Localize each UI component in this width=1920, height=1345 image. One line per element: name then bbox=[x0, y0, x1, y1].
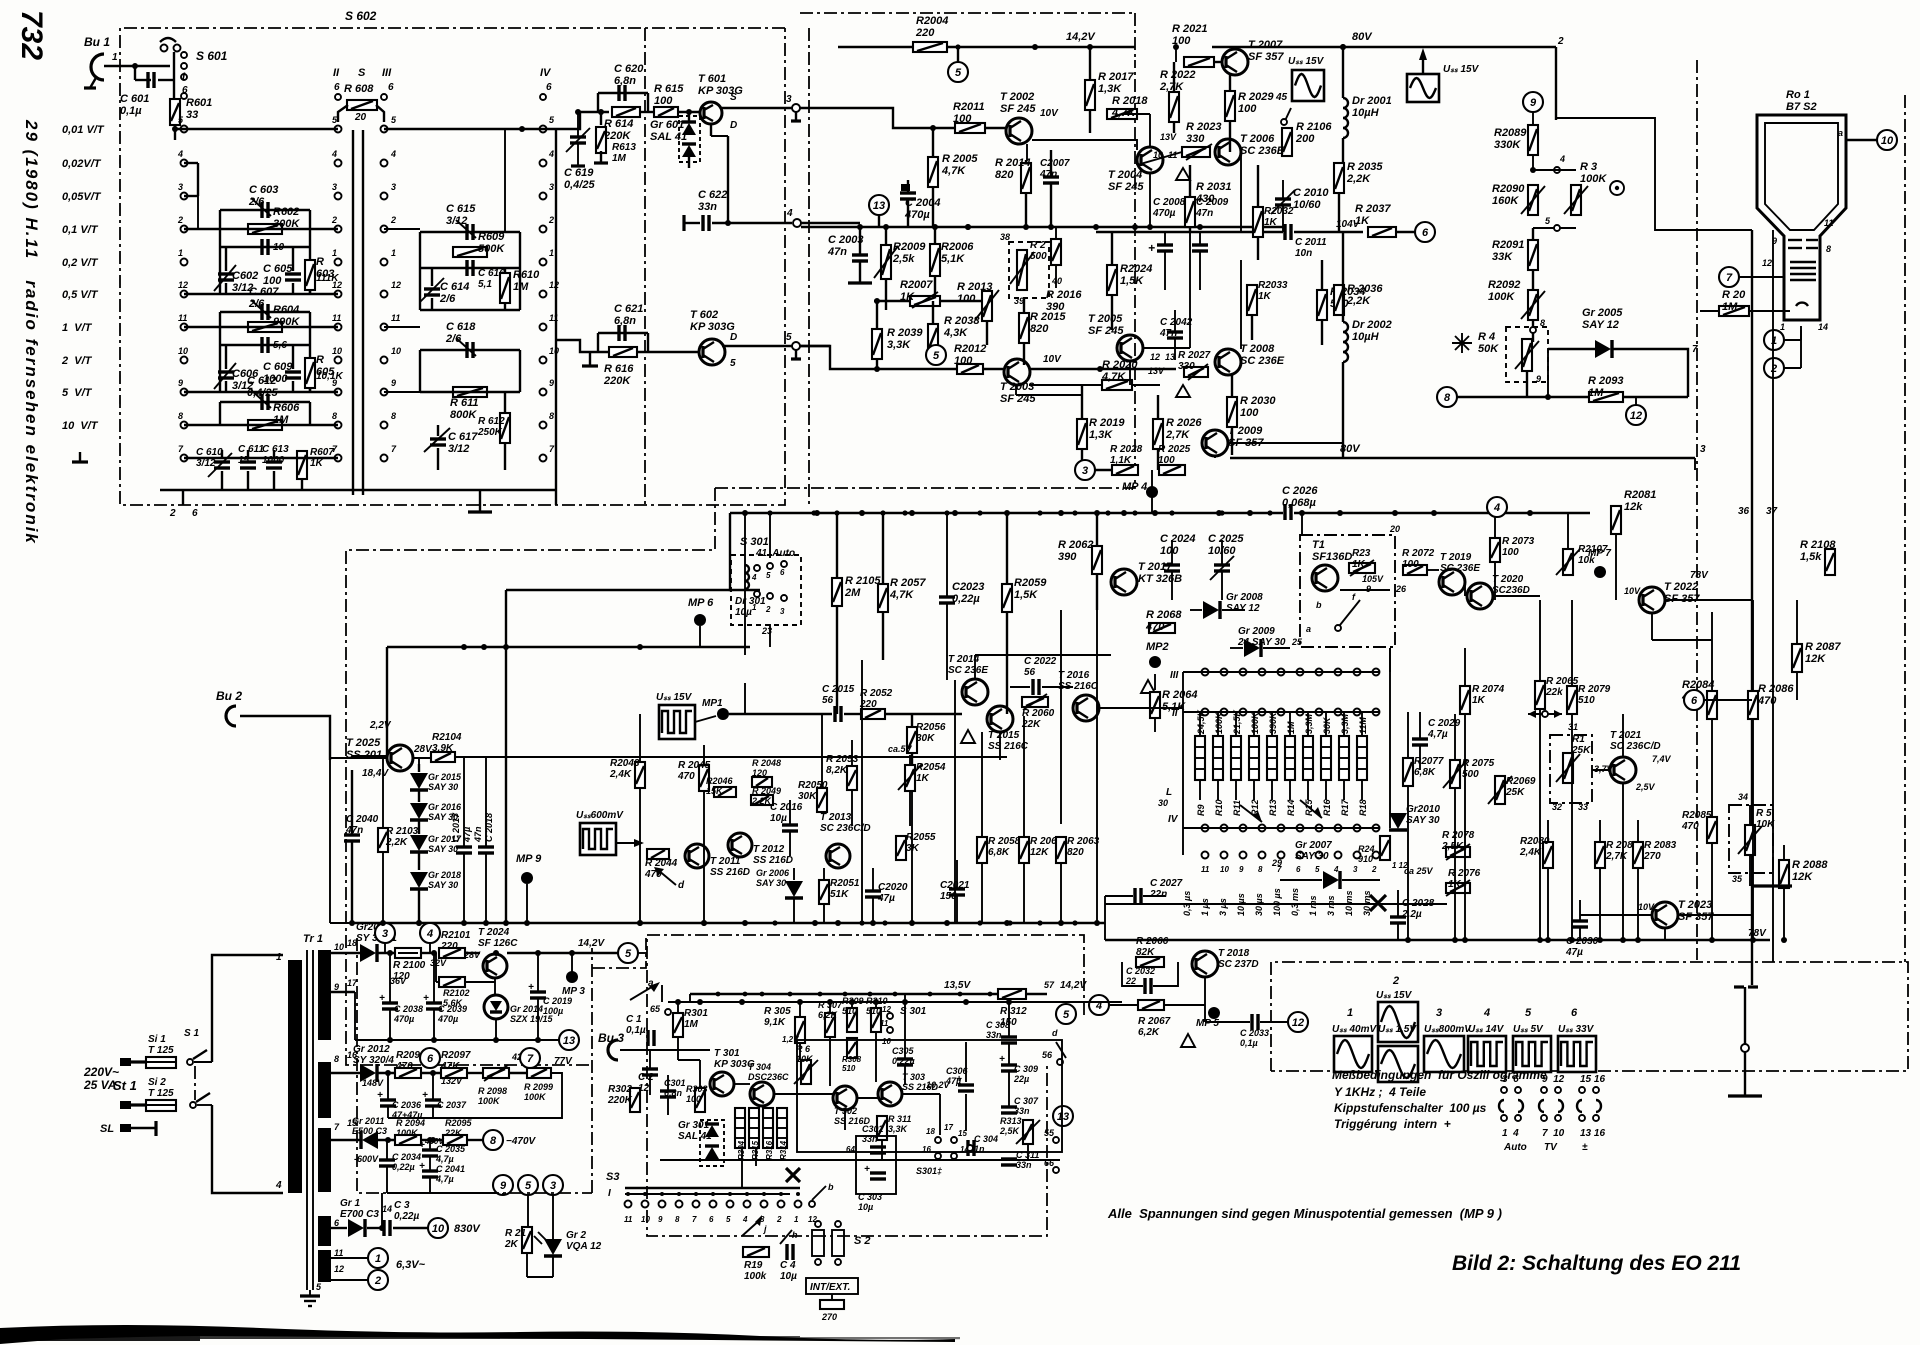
potentiometer R1 bbox=[1550, 735, 1592, 803]
svg-text:R9: R9 bbox=[1196, 804, 1206, 816]
matrix right link bbox=[1389, 648, 1391, 672]
svg-text:T 2022SF 357: T 2022SF 357 bbox=[1664, 581, 1700, 605]
right verticals bbox=[1751, 230, 1753, 985]
chain y-amp box right part bbox=[1134, 13, 1136, 60]
svg-text:5: 5 bbox=[1525, 1007, 1532, 1019]
svg-text:Uₛₛ 15V: Uₛₛ 15V bbox=[656, 692, 693, 703]
svg-text:4: 4 bbox=[177, 149, 183, 159]
T2023 links bbox=[1580, 914, 1652, 916]
svg-text:5: 5 bbox=[933, 350, 940, 362]
svg-text:32V: 32V bbox=[430, 958, 447, 968]
resistor R2067 bbox=[1138, 1000, 1164, 1010]
svg-text:b: b bbox=[1316, 600, 1322, 610]
capacitor C2019 bbox=[530, 992, 546, 998]
resistor R2021 bbox=[1184, 57, 1214, 67]
resistor R2093 bbox=[1589, 392, 1623, 402]
MP6 bbox=[694, 614, 706, 626]
capacitor C601 bbox=[134, 66, 136, 80]
svg-text:9: 9 bbox=[178, 378, 183, 388]
resistor R2011 bbox=[955, 123, 985, 133]
svg-text:10V: 10V bbox=[1043, 354, 1062, 365]
resistor R2072 bbox=[1403, 565, 1427, 575]
capacitors C2034 C2035 C2041 bbox=[379, 1160, 395, 1166]
svg-text:MP 7: MP 7 bbox=[1588, 548, 1611, 559]
resistor R616 bbox=[609, 347, 637, 357]
svg-text:13: 13 bbox=[563, 1035, 575, 1047]
resistors R2046 R2048 R2049 bbox=[714, 787, 736, 797]
resistor R2006 bbox=[930, 244, 940, 276]
svg-text:Gr2010SAY 30: Gr2010SAY 30 bbox=[1406, 804, 1440, 826]
svg-text:R24910: R24910 bbox=[1358, 844, 1375, 864]
svg-text:Uₛₛ 40mV: Uₛₛ 40mV bbox=[1332, 1024, 1377, 1035]
transistor T302 bbox=[833, 1086, 857, 1110]
svg-text:3: 3 bbox=[1436, 1007, 1442, 1019]
resistor R606 bbox=[248, 420, 282, 430]
capacitor C309 bbox=[1001, 1065, 1017, 1071]
transistor T304 bbox=[750, 1082, 774, 1106]
svg-text:4: 4 bbox=[426, 928, 433, 940]
svg-text:Uₛₛ 15V: Uₛₛ 15V bbox=[1376, 990, 1413, 1001]
svg-text:47µ: 47µ bbox=[462, 827, 472, 843]
svg-text:3: 3 bbox=[1082, 465, 1088, 477]
divider right network 500K bbox=[420, 231, 520, 233]
wire trigger horizontals bbox=[668, 1001, 1122, 1003]
terminal 13 bbox=[869, 195, 889, 215]
svg-text:L: L bbox=[1166, 787, 1172, 798]
ground stub T602 bbox=[582, 352, 598, 366]
chain y-amp bottom bbox=[715, 60, 1135, 488]
svg-text:1: 1 bbox=[375, 1253, 381, 1265]
svg-text:R602300K: R602300K bbox=[273, 206, 300, 230]
wire T2002 collector bbox=[1026, 144, 1028, 160]
transistor T2007 bbox=[1222, 49, 1248, 75]
terminals 9 5 3 bbox=[493, 1175, 513, 1195]
svg-text:65: 65 bbox=[650, 1004, 661, 1014]
wire T2009 emitter bbox=[1214, 456, 1216, 458]
svg-text:10: 10 bbox=[882, 1037, 891, 1046]
svg-text:C3050,22µ: C3050,22µ bbox=[892, 1046, 915, 1066]
svg-text:6: 6 bbox=[709, 1215, 714, 1224]
svg-text:a: a bbox=[648, 978, 654, 989]
double arrow bbox=[1752, 884, 1792, 887]
svg-text:R14: R14 bbox=[1286, 799, 1296, 816]
resistor R2085 bbox=[1707, 817, 1717, 843]
resistor R2044 bbox=[647, 849, 669, 859]
svg-text:5: 5 bbox=[955, 67, 962, 79]
svg-text:C20230,22µ: C20230,22µ bbox=[952, 581, 984, 605]
MP7 bbox=[1594, 566, 1606, 578]
svg-text:C 2018: C 2018 bbox=[484, 813, 494, 842]
svg-text:5,6: 5,6 bbox=[273, 340, 287, 351]
svg-text:6: 6 bbox=[546, 82, 552, 93]
svg-text:Bu 2: Bu 2 bbox=[216, 689, 242, 703]
svg-text:3: 3 bbox=[178, 182, 183, 192]
svg-text:5: 5 bbox=[1315, 865, 1320, 874]
svg-text:2: 2 bbox=[390, 215, 396, 225]
svg-text:10,1K: 10,1K bbox=[316, 371, 343, 382]
resistor R2017 bbox=[1085, 80, 1095, 110]
svg-text:6: 6 bbox=[192, 508, 198, 519]
transistor T2002 bbox=[1006, 118, 1032, 144]
svg-text:8: 8 bbox=[1444, 392, 1451, 404]
svg-text:Tr 1: Tr 1 bbox=[303, 933, 323, 945]
resistor R2075 bbox=[1450, 760, 1460, 788]
svg-text:36V: 36V bbox=[390, 976, 407, 986]
wire S301 feed bbox=[506, 589, 731, 591]
rail 13 bbox=[355, 1039, 560, 1041]
diode Gr2006 bbox=[785, 881, 803, 898]
svg-text:INT/EXT.: INT/EXT. bbox=[810, 1282, 850, 1293]
svg-text:Uₛₛ 15V: Uₛₛ 15V bbox=[1288, 56, 1325, 67]
svg-text:12: 12 bbox=[178, 280, 188, 290]
T2022 link bbox=[1651, 613, 1653, 640]
svg-text:1: 1 bbox=[332, 248, 337, 258]
chain divider x645 bbox=[644, 28, 646, 505]
wire preamp rail links bbox=[329, 760, 331, 923]
svg-text:10 V/T: 10 V/T bbox=[62, 420, 99, 432]
switch arm b bbox=[812, 1186, 826, 1200]
svg-text:11: 11 bbox=[391, 313, 400, 323]
svg-text:II: II bbox=[1172, 708, 1178, 719]
svg-text:8: 8 bbox=[332, 411, 337, 421]
svg-text:R302220K: R302220K bbox=[607, 1084, 633, 1106]
svg-text:2: 2 bbox=[169, 508, 176, 519]
svg-text:10V: 10V bbox=[1624, 586, 1641, 596]
wire mid 647 bbox=[387, 646, 750, 648]
capacitor C1 bbox=[648, 1030, 654, 1046]
capacitor C2003 bbox=[852, 255, 868, 261]
chain timebase box bbox=[346, 488, 715, 1065]
rail 512 extra dots bbox=[742, 510, 747, 515]
svg-text:1: 1 bbox=[276, 952, 282, 963]
resistor R2061 bbox=[1019, 837, 1029, 863]
svg-text:13: 13 bbox=[1057, 1111, 1069, 1123]
svg-text:41 Auto: 41 Auto bbox=[755, 548, 795, 559]
svg-text:13,5V: 13,5V bbox=[944, 980, 971, 991]
svg-text:1 V/T: 1 V/T bbox=[62, 322, 93, 334]
svg-text:7: 7 bbox=[1726, 272, 1733, 284]
ground row label bbox=[72, 452, 88, 462]
resistor R313 bbox=[1023, 1120, 1033, 1144]
trigger bistable outline bbox=[797, 1040, 1062, 1152]
resistor R1b 270 bbox=[820, 1300, 844, 1309]
capacitor C304 bbox=[968, 1140, 974, 1156]
resistor R615 bbox=[654, 107, 678, 117]
resistor R bbox=[305, 358, 315, 388]
svg-text:MP 5: MP 5 bbox=[1196, 1018, 1219, 1029]
resistor R601 bbox=[170, 99, 180, 125]
capacitor C2030 bbox=[1572, 921, 1588, 927]
svg-text:11: 11 bbox=[1824, 218, 1833, 228]
svg-text:Uₛₛ 15V: Uₛₛ 15V bbox=[1443, 64, 1480, 75]
transistor T2022 bbox=[1639, 587, 1665, 613]
svg-text:9: 9 bbox=[1536, 374, 1541, 384]
svg-text:30K: 30K bbox=[1322, 716, 1332, 734]
svg-text:+: + bbox=[864, 1164, 870, 1175]
svg-text:10: 10 bbox=[1881, 135, 1894, 147]
svg-text:12: 12 bbox=[882, 1005, 891, 1014]
svg-text:6: 6 bbox=[1296, 865, 1301, 874]
svg-text:Bild 2: Schaltung des EO 211: Bild 2: Schaltung des EO 211 bbox=[1452, 1252, 1741, 1275]
svg-text:Uₛₛ600mV: Uₛₛ600mV bbox=[576, 810, 624, 821]
svg-text:111K: 111K bbox=[316, 273, 339, 284]
svg-text:23: 23 bbox=[761, 626, 772, 636]
svg-text:3,3M: 3,3M bbox=[1340, 713, 1350, 734]
svg-text:Uₛₛ 14V: Uₛₛ 14V bbox=[1468, 1024, 1505, 1035]
terminals 1 2 crt bbox=[1764, 330, 1784, 350]
resistor R2076 bbox=[1446, 883, 1470, 893]
diode chain Gr2015-2018 bbox=[418, 764, 420, 772]
potentiometer R2069 bbox=[1495, 776, 1505, 804]
choke Dr2002 bbox=[1343, 322, 1348, 362]
svg-text:10: 10 bbox=[178, 346, 188, 356]
svg-text:SL: SL bbox=[100, 1123, 114, 1135]
svg-text:S 301: S 301 bbox=[900, 1006, 927, 1017]
svg-text:T 2005SF 245: T 2005SF 245 bbox=[1088, 313, 1124, 337]
svg-text:105V: 105V bbox=[1362, 574, 1384, 584]
svg-text:15 16: 15 16 bbox=[1580, 1074, 1605, 1085]
svg-text:8: 8 bbox=[1258, 865, 1263, 874]
capacitor C308 bbox=[1001, 1037, 1017, 1043]
resistor R bbox=[305, 260, 315, 290]
wire T2004 region bbox=[1122, 113, 1150, 115]
svg-text:Uₛₛ800mV: Uₛₛ800mV bbox=[1424, 1024, 1472, 1035]
transistor T2025 bbox=[387, 745, 413, 771]
resistor R2064 bbox=[1150, 692, 1160, 718]
svg-text:R 608: R 608 bbox=[344, 83, 374, 95]
svg-text:R18: R18 bbox=[1358, 799, 1368, 816]
resistor R2078 bbox=[1446, 847, 1470, 857]
svg-text:29 (1980) H.11 radio fernseh: 29 (1980) H.11 radio fernsehen elektroni… bbox=[22, 119, 41, 545]
capacitor C2021 bbox=[949, 889, 965, 895]
transistor T2008 bbox=[1215, 349, 1241, 375]
resistor R2082 bbox=[1595, 842, 1605, 868]
crt grid electrodes bbox=[1788, 240, 1818, 280]
capacitor C 605 bbox=[285, 274, 301, 280]
capacitor C2004 bbox=[900, 193, 916, 199]
capacitor C2040 bbox=[344, 835, 360, 841]
svg-text:148V: 148V bbox=[362, 1078, 384, 1088]
svg-text:R314: R314 bbox=[779, 1140, 788, 1160]
resistor R309 bbox=[847, 1008, 857, 1032]
arrow a bbox=[630, 985, 655, 1000]
resistor R2054 bbox=[905, 765, 915, 791]
resistor R2053 bbox=[847, 766, 857, 790]
resistor R20 bbox=[1719, 306, 1749, 316]
svg-text:6,3V~: 6,3V~ bbox=[396, 1259, 426, 1271]
svg-text:37: 37 bbox=[1766, 506, 1778, 517]
svg-text:0,02V/T: 0,02V/T bbox=[62, 158, 102, 170]
T2019 T2020 wires bbox=[1427, 569, 1439, 571]
svg-text:T 2004SF 245: T 2004SF 245 bbox=[1108, 169, 1144, 193]
zener Gr2014 bbox=[484, 995, 508, 1019]
MP2 bbox=[1149, 656, 1161, 668]
resistor R2004 bbox=[913, 42, 947, 52]
svg-text:Uₛₛ 33V: Uₛₛ 33V bbox=[1558, 1024, 1595, 1035]
trigger 13,5V rail dots bbox=[716, 992, 721, 997]
capacitor C 609 bbox=[285, 372, 301, 378]
rail 47 dots bbox=[955, 44, 960, 49]
svg-text:3,3M: 3,3M bbox=[1304, 713, 1314, 734]
svg-text:100 µs: 100 µs bbox=[1272, 888, 1282, 916]
resistor R305 bbox=[795, 1017, 805, 1043]
resistor R2103 bbox=[378, 828, 388, 852]
svg-text:Gr 2005SAY 12: Gr 2005SAY 12 bbox=[1582, 307, 1623, 331]
svg-text:12: 12 bbox=[334, 1264, 344, 1274]
rail 940 dots bbox=[1405, 937, 1411, 943]
resistor R2020 bbox=[1102, 380, 1132, 390]
transistor T2017 bbox=[1111, 569, 1137, 595]
resistor R2007 bbox=[910, 296, 940, 306]
svg-text:9: 9 bbox=[549, 378, 554, 388]
wire T2005 net bbox=[1129, 361, 1131, 385]
svg-text:3: 3 bbox=[1700, 444, 1706, 455]
resistor R2073 bbox=[1490, 538, 1500, 562]
resistor R2100 bbox=[395, 948, 421, 958]
oscillogram Uss 600mV bbox=[580, 823, 616, 855]
wire T2014 collector to rail bbox=[974, 655, 976, 679]
chain regulator box bbox=[357, 938, 592, 1193]
resistor R2032 bbox=[1253, 207, 1263, 237]
resistor R2062 bbox=[1092, 546, 1102, 574]
svg-text:Gr 2018SAY 30: Gr 2018SAY 30 bbox=[428, 870, 461, 890]
wire T2004 collector bbox=[1149, 173, 1151, 227]
capacitor C2028 bbox=[1390, 917, 1406, 923]
svg-text:9 12: 9 12 bbox=[1542, 1074, 1565, 1085]
potentiometer R2 500 bbox=[1009, 242, 1049, 298]
capacitor C2015 bbox=[835, 706, 841, 722]
svg-text:8: 8 bbox=[549, 411, 554, 421]
svg-text:S3: S3 bbox=[606, 1171, 619, 1183]
svg-text:R 611800K: R 611800K bbox=[450, 397, 479, 421]
svg-text:28V: 28V bbox=[463, 950, 481, 960]
capacitor C2023 bbox=[939, 597, 955, 603]
transistor T2020 bbox=[1467, 583, 1493, 609]
svg-text:12: 12 bbox=[1630, 410, 1642, 422]
svg-text:+: + bbox=[379, 993, 385, 1004]
capacitor C2033 bbox=[1252, 1014, 1258, 1030]
svg-text:C 203647+47µ: C 203647+47µ bbox=[391, 1100, 422, 1120]
X mark bbox=[1370, 895, 1386, 911]
svg-text:Auto: Auto bbox=[1503, 1142, 1527, 1153]
6.3V terminals bbox=[331, 1257, 368, 1259]
row wires attenuator bbox=[184, 228, 338, 230]
svg-text:3: 3 bbox=[550, 1180, 556, 1192]
svg-text:T 2007SF 357: T 2007SF 357 bbox=[1248, 39, 1284, 63]
svg-text:Bu 1: Bu 1 bbox=[84, 35, 110, 49]
rail 14,2V supply bbox=[331, 952, 360, 954]
svg-text:2,2V: 2,2V bbox=[369, 720, 392, 731]
svg-text:11: 11 bbox=[624, 1215, 633, 1224]
rail 923 dots2 bbox=[742, 920, 747, 925]
svg-text:20: 20 bbox=[354, 112, 367, 123]
svg-text:C 410µ: C 410µ bbox=[780, 1260, 797, 1282]
svg-text:Kippstufenschalter 100 µs: Kippstufenschalter 100 µs bbox=[1334, 1101, 1487, 1115]
transistor T2012 bbox=[728, 833, 752, 857]
diode Gr2013 bbox=[360, 944, 377, 962]
transistor T2013 bbox=[826, 844, 850, 868]
resistor R2019 bbox=[1077, 419, 1087, 449]
resistor R2087 bbox=[1792, 644, 1802, 672]
svg-text:14,2V: 14,2V bbox=[578, 938, 605, 949]
svg-text:R 614220K: R 614220K bbox=[603, 118, 633, 142]
wire T2003 emitter bbox=[1015, 386, 1017, 395]
svg-text:S301‡: S301‡ bbox=[916, 1166, 942, 1176]
diodes Gr601 SAL41 bbox=[679, 116, 700, 162]
chain border y-amp box top bbox=[800, 12, 1135, 14]
resistor R2024 bbox=[1107, 265, 1117, 295]
svg-text:3 6: 3 6 bbox=[1502, 1074, 1519, 1085]
svg-text:1: 1 bbox=[391, 248, 396, 258]
svg-text:+: + bbox=[422, 1090, 428, 1101]
svg-text:Gr 601SAL 41: Gr 601SAL 41 bbox=[650, 119, 687, 143]
resistor R2056 bbox=[907, 727, 917, 753]
resistor R2063 bbox=[1056, 837, 1066, 863]
svg-text:R11: R11 bbox=[1232, 800, 1242, 816]
svg-text:d: d bbox=[1052, 1028, 1058, 1038]
svg-text:a: a bbox=[1306, 624, 1311, 634]
svg-text:5: 5 bbox=[1063, 1009, 1070, 1021]
trigger R bank bbox=[735, 1108, 745, 1148]
svg-text:10: 10 bbox=[391, 346, 401, 356]
crt anode wire to 10 bbox=[1846, 139, 1877, 141]
svg-text:39: 39 bbox=[1014, 296, 1024, 306]
wire amp input top bbox=[800, 108, 1006, 128]
resistor R310 bbox=[871, 1008, 881, 1032]
svg-text:7 10: 7 10 bbox=[1542, 1128, 1565, 1139]
chain trigger box bbox=[647, 935, 1084, 1236]
svg-text:3: 3 bbox=[1353, 865, 1358, 874]
resistor R2080 bbox=[1543, 842, 1553, 868]
resistor R2068 bbox=[1149, 623, 1175, 633]
connector Bu1 bbox=[91, 54, 104, 80]
svg-text:8: 8 bbox=[675, 1215, 680, 1224]
svg-text:C 20260,068µ: C 20260,068µ bbox=[1282, 485, 1318, 509]
resistor R2031 bbox=[1185, 197, 1195, 227]
right bus IV bbox=[555, 129, 557, 505]
svg-text:2: 2 bbox=[548, 215, 554, 225]
resistor R2045 bbox=[699, 765, 709, 791]
svg-text:80V: 80V bbox=[1352, 31, 1373, 43]
terminal 8 bbox=[1437, 387, 1457, 407]
svg-text:TV: TV bbox=[1544, 1142, 1558, 1153]
svg-text:7: 7 bbox=[527, 1053, 534, 1065]
svg-text:24,5K: 24,5K bbox=[1196, 708, 1206, 735]
supply rail dots bbox=[387, 950, 393, 956]
svg-text:57: 57 bbox=[1044, 980, 1055, 990]
svg-text:7: 7 bbox=[1692, 344, 1698, 355]
resistor R2038 bbox=[928, 324, 938, 352]
rail 9 17 bbox=[331, 991, 355, 993]
capacitor C2 bbox=[642, 1069, 658, 1075]
rail 77V bbox=[331, 1072, 360, 1074]
svg-text:Gr 2012SY 320/4: Gr 2012SY 320/4 bbox=[353, 1044, 394, 1066]
svg-text:MP 4: MP 4 bbox=[1122, 481, 1147, 493]
transistor T2004 bbox=[1137, 147, 1163, 173]
resistor R2084 bbox=[1707, 691, 1717, 719]
capacitor C2007 bbox=[1043, 177, 1059, 183]
svg-text:Gr 2008SAY 12: Gr 2008SAY 12 bbox=[1226, 592, 1263, 614]
resistor R2037 bbox=[1368, 227, 1396, 237]
svg-text:12: 12 bbox=[391, 280, 401, 290]
svg-text:0,3 ms: 0,3 ms bbox=[1290, 888, 1300, 916]
resistor R2029 bbox=[1225, 91, 1235, 121]
svg-text:3: 3 bbox=[786, 94, 792, 105]
svg-text:5 V/T: 5 V/T bbox=[62, 387, 93, 399]
svg-text:4: 4 bbox=[1493, 502, 1500, 514]
trigger base wire bbox=[774, 1093, 833, 1095]
terminal 3 post bbox=[792, 104, 800, 112]
